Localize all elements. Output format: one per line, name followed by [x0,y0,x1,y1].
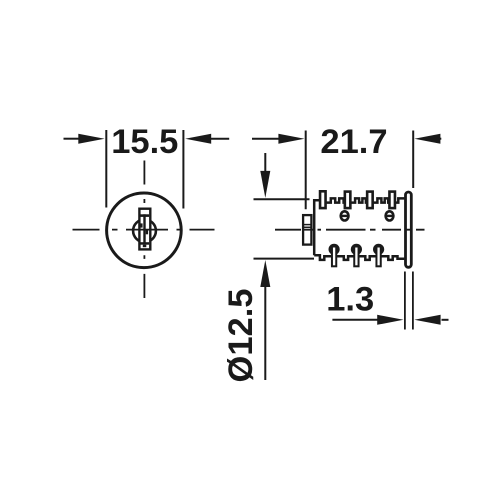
dim 21.7 extension line left [305,131,307,210]
dim 1.3 extension line right [412,272,414,330]
dim 1.3 right arrow [414,315,448,325]
pin 1 head [329,244,340,255]
dim 21.7 extension line right [412,131,414,189]
keyway bottom band [141,242,150,245]
vertical center line (front view) [143,161,145,299]
spring tab 2 [345,192,351,209]
svg-text:21.7: 21.7 [320,123,387,161]
cam slot line upper [304,224,312,226]
dim 15.5 left arrow [64,134,105,144]
front flange cap [406,192,412,267]
horizontal center line (side view) [275,229,425,231]
dim 12.5 extension line top [254,198,310,200]
keyway middle bar [143,214,145,244]
dim 12.5 extension line bottom [254,258,315,260]
pin 2 stem [354,247,358,267]
svg-text:15.5: 15.5 [111,123,178,161]
pin 1 stem [332,247,336,267]
spring tab 1 [320,191,326,208]
pin 3 stem [376,247,380,267]
pin 3 head [373,244,384,255]
cylinder face outer circle [107,193,182,268]
cylinder body outline (castellated) [314,198,404,260]
keyway top band [141,214,150,217]
dim 12.5 up arrow [260,260,270,380]
dim 1.3 extension line left [404,272,406,330]
spring tab 3 [367,192,373,209]
dim 15.5 extension line left [105,130,107,208]
screw symbol left [341,211,349,220]
screw symbol right [386,211,394,220]
plug circle [133,219,156,242]
dim 15.5 extension line right [182,130,184,209]
keyhole body [139,209,150,250]
dim 1.3 left arrow [332,315,403,325]
keyway right notch [146,230,148,234]
keyway bottom tab [143,245,147,248]
cam (left spindle) [303,215,311,245]
cam slot line lower [304,226,312,228]
dim 15.5 right arrow [185,134,229,144]
horizontal center line (front view) [73,229,215,231]
svg-text:1.3: 1.3 [326,281,374,319]
dim 12.5 down arrow [260,153,270,198]
pin 2 head [351,244,362,255]
dim 21.7 left arrow [252,134,305,144]
spring tab 4 [389,192,395,209]
svg-text:Ø12.5: Ø12.5 [222,289,260,383]
keyway left notch [140,223,142,227]
dim 21.7 right arrow [414,134,441,144]
